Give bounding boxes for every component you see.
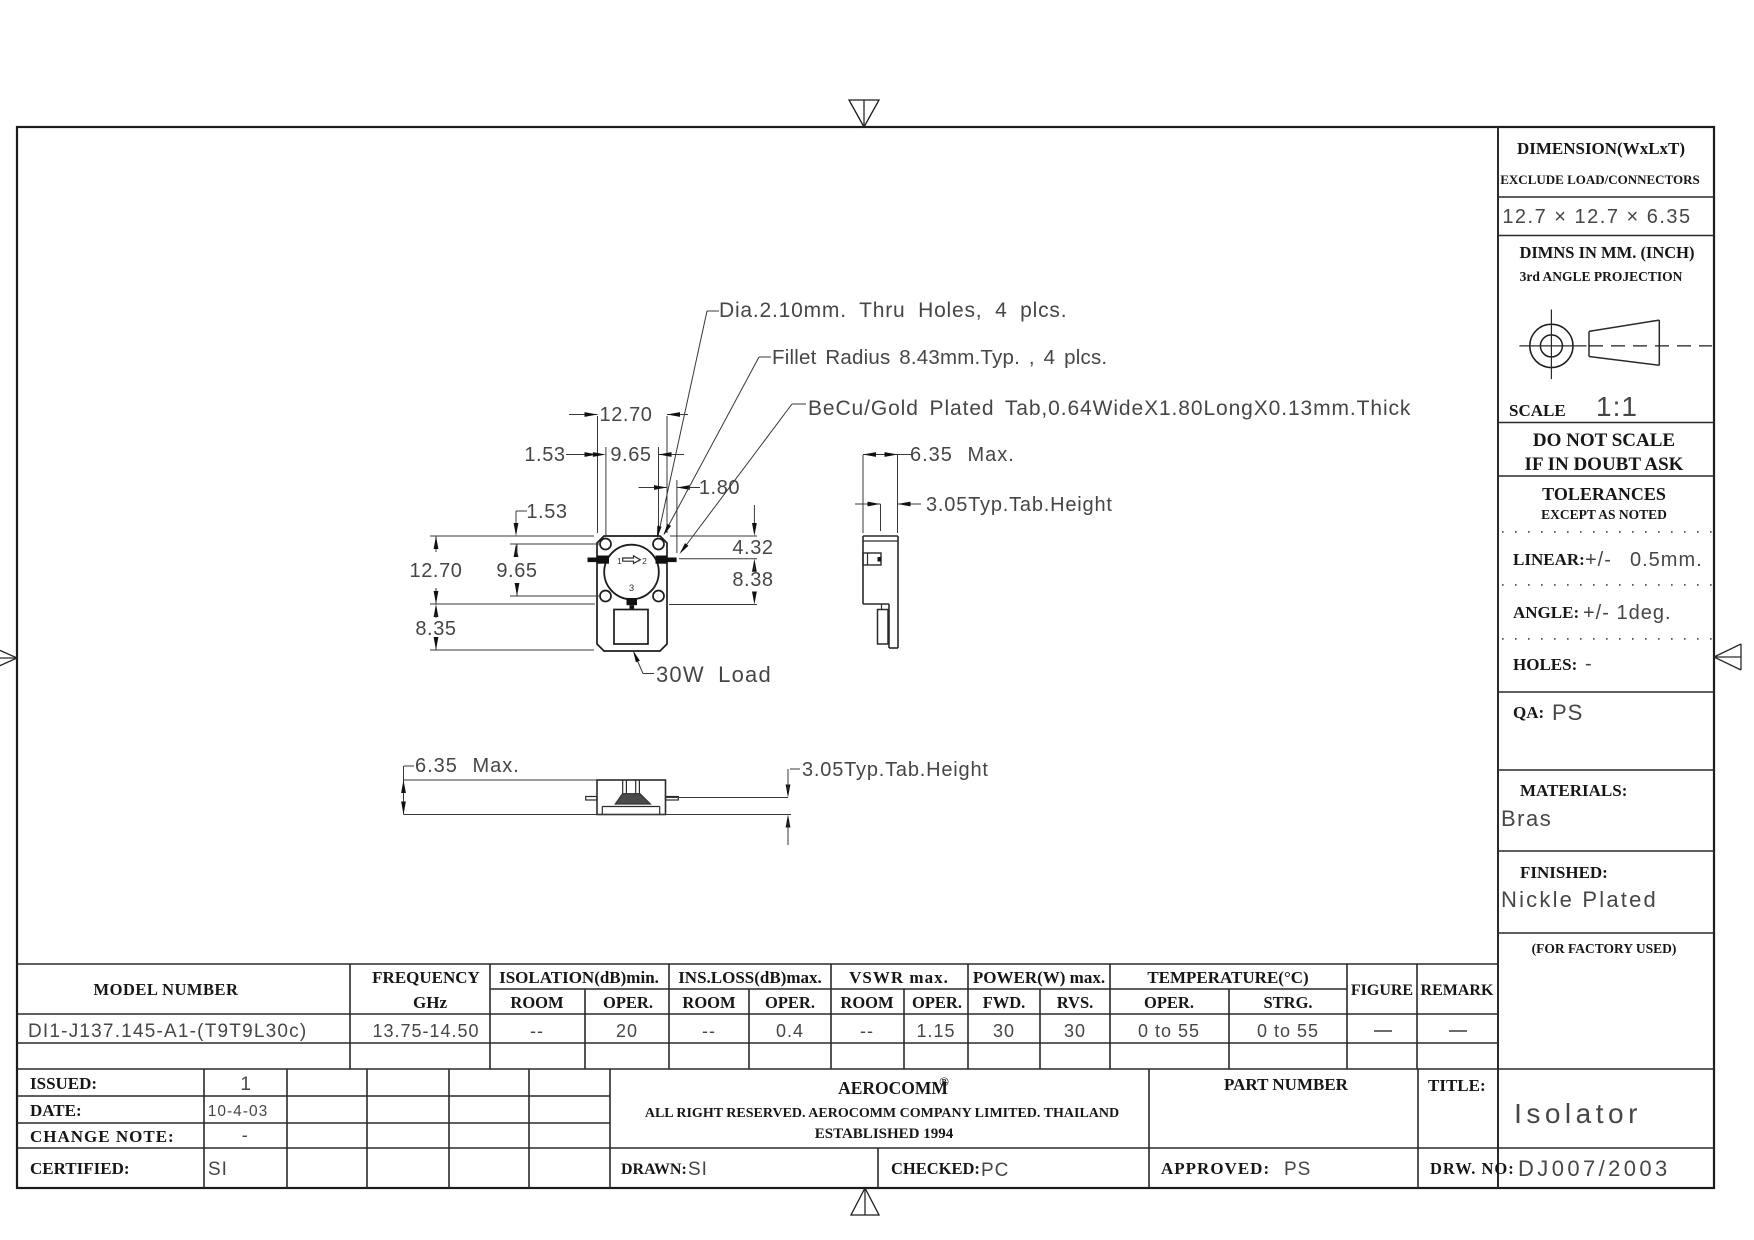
svg-text:EXCLUDE LOAD/CONNECTORS: EXCLUDE LOAD/CONNECTORS <box>1500 172 1700 187</box>
svg-text:10-4-03: 10-4-03 <box>208 1103 268 1120</box>
svg-text:12.7 × 12.7 × 6.35: 12.7 × 12.7 × 6.35 <box>1502 206 1691 228</box>
svg-text:0.4: 0.4 <box>776 1021 804 1041</box>
svg-text:Fillet Radius 8.43mm.Typ. , 4: Fillet Radius 8.43mm.Typ. , 4 plcs. <box>772 346 1107 369</box>
svg-text:ANGLE:: ANGLE: <box>1513 603 1579 622</box>
svg-text:30W Load: 30W Load <box>656 662 772 687</box>
svg-text:Bras: Bras <box>1501 806 1552 831</box>
svg-text:FIGURE: FIGURE <box>1351 982 1413 999</box>
svg-text:CHANGE NOTE:: CHANGE NOTE: <box>30 1127 175 1146</box>
svg-text:APPROVED:: APPROVED: <box>1161 1159 1270 1178</box>
svg-text:OPER.: OPER. <box>1144 993 1194 1012</box>
svg-text:SI: SI <box>208 1159 228 1180</box>
svg-text:1:1: 1:1 <box>1596 391 1638 422</box>
svg-text:MODEL NUMBER: MODEL NUMBER <box>94 980 239 999</box>
svg-text:PS: PS <box>1552 700 1583 725</box>
svg-text:SI: SI <box>688 1159 708 1180</box>
svg-text:1: 1 <box>240 1074 251 1095</box>
svg-text:12.70: 12.70 <box>409 560 462 582</box>
svg-text:2: 2 <box>642 556 647 566</box>
svg-text:ALL RIGHT RESERVED. AEROCOMM C: ALL RIGHT RESERVED. AEROCOMM COMPANY LIM… <box>645 1106 1119 1121</box>
svg-text:0 to 55: 0 to 55 <box>1138 1021 1200 1041</box>
svg-text:INS.LOSS(dB)max.: INS.LOSS(dB)max. <box>678 968 822 987</box>
svg-text:PART NUMBER: PART NUMBER <box>1224 1075 1349 1094</box>
svg-text:30: 30 <box>993 1021 1015 1041</box>
svg-text:DATE:: DATE: <box>30 1101 82 1120</box>
svg-text:CERTIFIED:: CERTIFIED: <box>30 1159 130 1178</box>
svg-text:STRG.: STRG. <box>1263 993 1312 1012</box>
svg-text:3: 3 <box>629 583 634 594</box>
svg-text:DRAWN:: DRAWN: <box>621 1161 687 1178</box>
svg-text:®: ® <box>939 1074 949 1089</box>
svg-text:ROOM: ROOM <box>510 993 564 1012</box>
svg-text:Nickle Plated: Nickle Plated <box>1501 887 1658 912</box>
svg-text:MATERIALS:: MATERIALS: <box>1520 781 1627 800</box>
svg-text:ROOM: ROOM <box>682 993 736 1012</box>
svg-text:DI1-J137.145-A1-(T9T9L30c): DI1-J137.145-A1-(T9T9L30c) <box>28 1021 307 1042</box>
svg-text:SCALE: SCALE <box>1509 401 1566 420</box>
svg-text:FINISHED:: FINISHED: <box>1520 863 1608 882</box>
svg-text:RVS.: RVS. <box>1057 993 1094 1012</box>
svg-text:PS: PS <box>1284 1159 1311 1180</box>
svg-text:DIMENSION(WxLxT): DIMENSION(WxLxT) <box>1517 139 1685 158</box>
svg-text:GHz: GHz <box>413 993 447 1012</box>
svg-text:3.05Typ.Tab.Height: 3.05Typ.Tab.Height <box>926 494 1113 516</box>
svg-text:VSWR max.: VSWR max. <box>849 968 949 987</box>
svg-text:OPER.: OPER. <box>912 993 962 1012</box>
svg-text:DO NOT SCALE: DO NOT SCALE <box>1533 430 1675 451</box>
svg-text:--: -- <box>530 1021 544 1041</box>
svg-text:QA:: QA: <box>1513 703 1544 722</box>
svg-text:HOLES:: HOLES: <box>1513 655 1577 674</box>
svg-text:CHECKED:: CHECKED: <box>891 1159 980 1178</box>
svg-text:TEMPERATURE(°C): TEMPERATURE(°C) <box>1147 968 1308 987</box>
svg-text:ISOLATION(dB)min.: ISOLATION(dB)min. <box>499 968 659 987</box>
svg-text:+/-: +/- <box>1585 549 1612 571</box>
svg-text:8.38: 8.38 <box>732 569 773 591</box>
svg-text:POWER(W) max.: POWER(W) max. <box>973 968 1105 987</box>
svg-text:DIMNS IN MM. (INCH): DIMNS IN MM. (INCH) <box>1519 243 1694 262</box>
svg-text:LINEAR:: LINEAR: <box>1513 550 1585 569</box>
svg-text:3rd ANGLE PROJECTION: 3rd ANGLE PROJECTION <box>1520 269 1683 284</box>
svg-text:ROOM: ROOM <box>840 993 894 1012</box>
svg-text:DRW. NO:: DRW. NO: <box>1430 1159 1515 1178</box>
svg-text:-: - <box>1585 653 1592 675</box>
svg-text:6.35 Max.: 6.35 Max. <box>910 444 1015 466</box>
svg-text:OPER.: OPER. <box>765 993 815 1012</box>
svg-text:1.53: 1.53 <box>524 444 565 466</box>
svg-text:TOLERANCES: TOLERANCES <box>1542 484 1666 504</box>
svg-text:ISSUED:: ISSUED: <box>30 1074 97 1093</box>
svg-text:DJ007/2003: DJ007/2003 <box>1518 1156 1671 1181</box>
svg-text:Isolator: Isolator <box>1514 1098 1642 1129</box>
svg-text:IF IN DOUBT ASK: IF IN DOUBT ASK <box>1525 454 1684 475</box>
svg-text:FWD.: FWD. <box>983 993 1026 1012</box>
svg-text:0 to 55: 0 to 55 <box>1257 1021 1319 1041</box>
svg-text:1.53: 1.53 <box>526 501 567 523</box>
svg-text:PC: PC <box>981 1160 1009 1181</box>
svg-text:12.70: 12.70 <box>599 404 652 426</box>
svg-text:13.75-14.50: 13.75-14.50 <box>372 1021 479 1041</box>
svg-text:1.80: 1.80 <box>699 477 740 499</box>
svg-text:9.65: 9.65 <box>610 444 651 466</box>
svg-text:30: 30 <box>1064 1021 1086 1041</box>
svg-text:4.32: 4.32 <box>732 537 773 559</box>
svg-text:+/- 1deg.: +/- 1deg. <box>1583 602 1672 624</box>
svg-text:--: -- <box>702 1021 716 1041</box>
svg-text:FREQUENCY: FREQUENCY <box>372 968 480 987</box>
svg-text:1: 1 <box>617 556 622 566</box>
svg-text:20: 20 <box>616 1021 638 1041</box>
svg-text:ESTABLISHED 1994: ESTABLISHED 1994 <box>815 1126 954 1142</box>
svg-text:OPER.: OPER. <box>603 993 653 1012</box>
svg-text:-: - <box>242 1125 249 1145</box>
svg-text:BeCu/Gold Plated Tab,0.64WideX: BeCu/Gold Plated Tab,0.64WideX1.80LongX0… <box>808 397 1411 420</box>
svg-text:(FOR FACTORY USED): (FOR FACTORY USED) <box>1532 941 1677 956</box>
svg-text:TITLE:: TITLE: <box>1428 1076 1486 1095</box>
svg-text:AEROCOMM: AEROCOMM <box>838 1078 948 1098</box>
svg-text:9.65: 9.65 <box>496 560 537 582</box>
svg-text:0.5mm.: 0.5mm. <box>1630 549 1703 571</box>
svg-text:1.15: 1.15 <box>916 1021 955 1041</box>
svg-text:3.05Typ.Tab.Height: 3.05Typ.Tab.Height <box>802 759 989 781</box>
svg-text:REMARK: REMARK <box>1421 982 1494 999</box>
svg-text:Dia.2.10mm. Thru Holes, 4 plcs: Dia.2.10mm. Thru Holes, 4 plcs. <box>719 299 1067 322</box>
svg-text:6.35 Max.: 6.35 Max. <box>415 755 520 777</box>
svg-text:--: -- <box>860 1021 874 1041</box>
svg-text:8.35: 8.35 <box>415 618 456 640</box>
svg-text:EXCEPT AS NOTED: EXCEPT AS NOTED <box>1541 507 1667 522</box>
